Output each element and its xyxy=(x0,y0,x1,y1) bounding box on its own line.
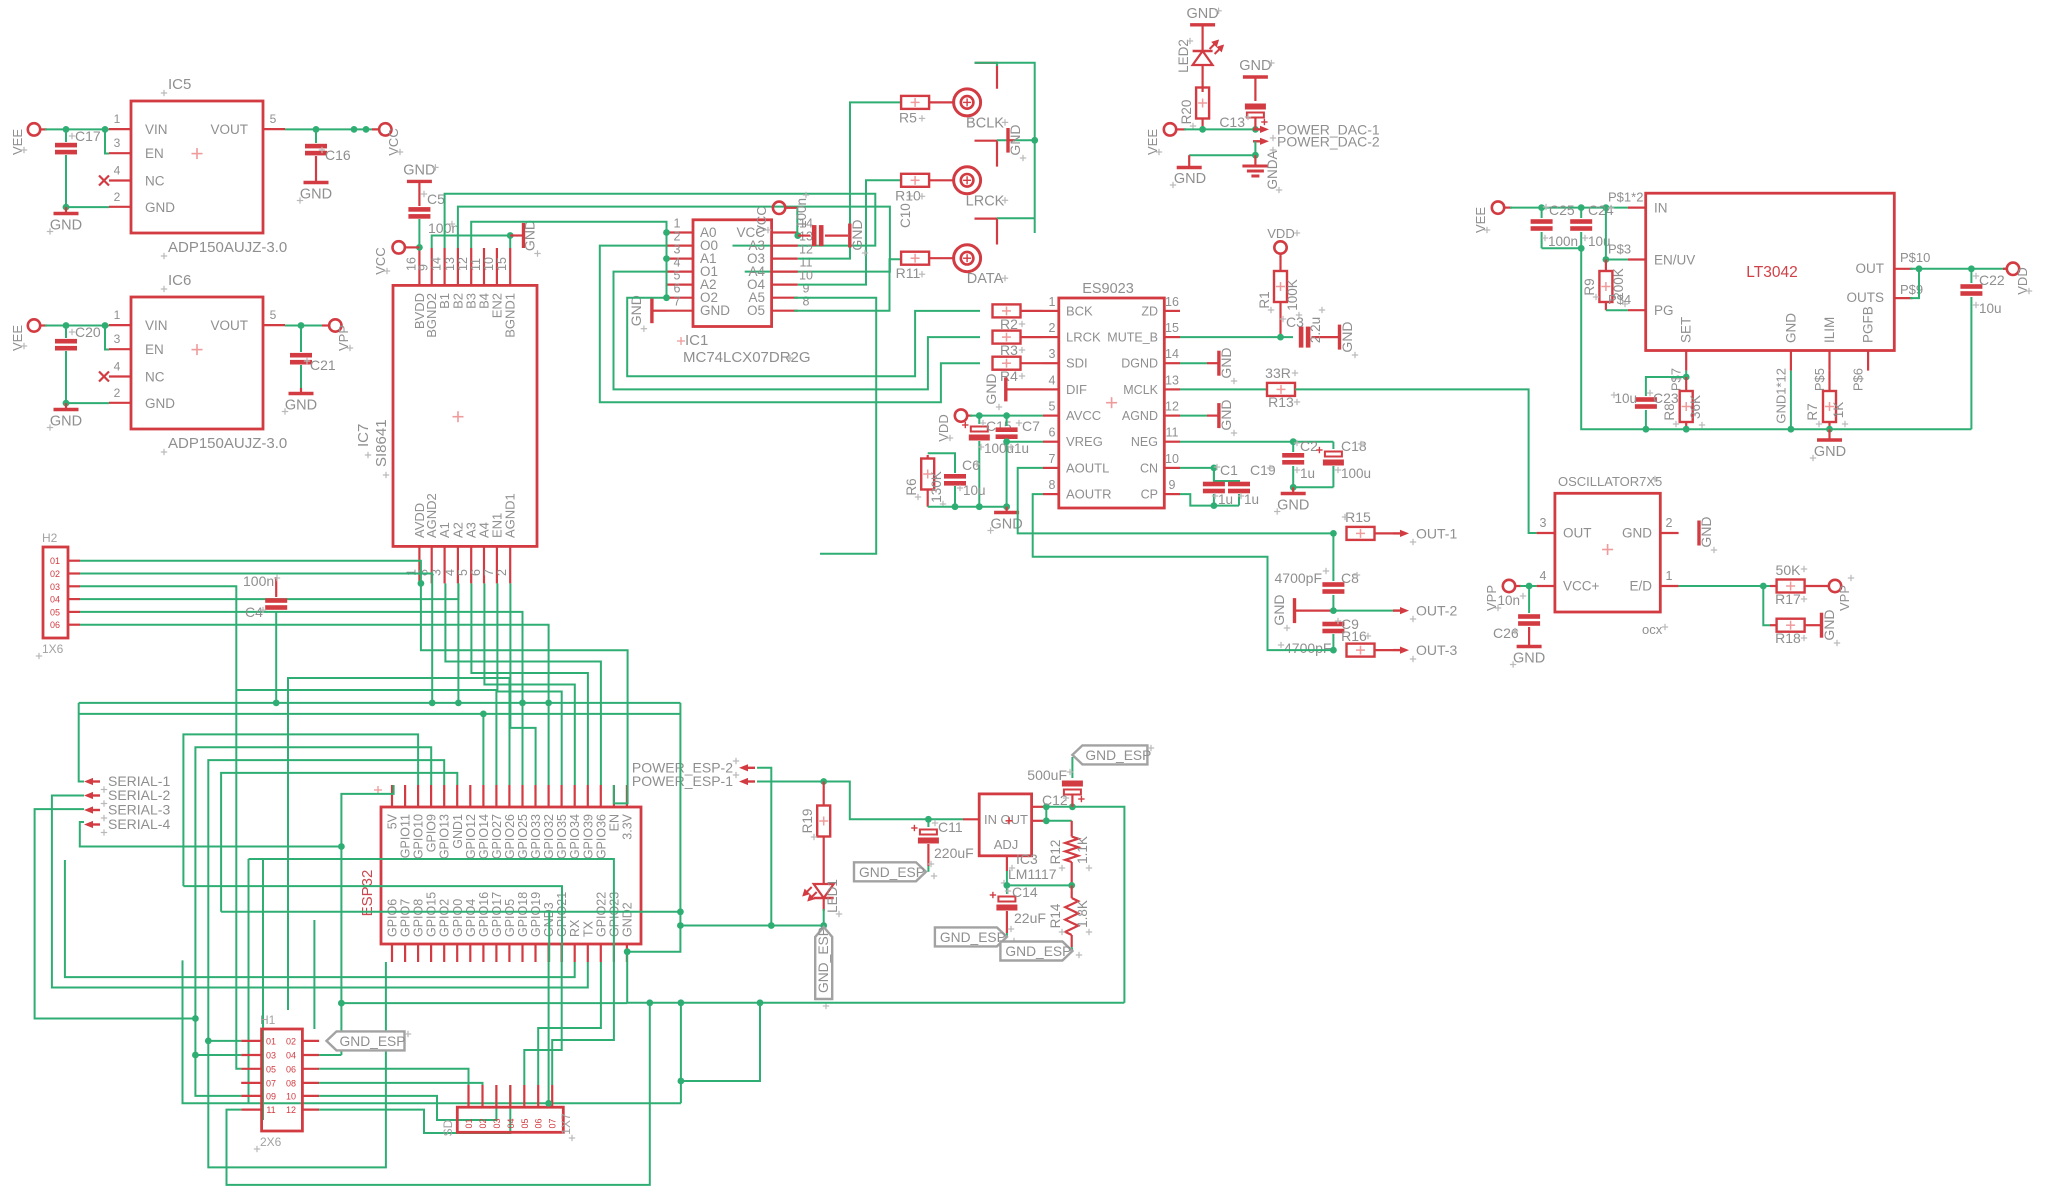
svg-text:C4: C4 xyxy=(245,604,263,620)
wire IC7 pin2 to ESP32 xyxy=(510,583,535,785)
svg-text:LED1: LED1 xyxy=(825,879,840,913)
wire H1-06 ladder xyxy=(319,1069,468,1085)
wire filler right xyxy=(681,1003,760,1081)
svg-text:12: 12 xyxy=(1165,400,1179,414)
svg-text:LRCK: LRCK xyxy=(1066,330,1101,345)
wire C20 gnd to pin2 xyxy=(66,402,109,404)
junction IC1 pin3 xyxy=(663,255,670,262)
svg-text:C18: C18 xyxy=(1341,438,1367,454)
junction OUTS tap xyxy=(1916,265,1923,272)
svg-text:P$4: P$4 xyxy=(1608,292,1631,307)
svg-text:GPIO26: GPIO26 xyxy=(503,814,517,859)
junction EN tap IC5 xyxy=(102,126,109,133)
pad VDD (3.3VA out) xyxy=(2003,263,2032,295)
resistor R16 xyxy=(1341,628,1393,657)
svg-text:1u: 1u xyxy=(1300,466,1315,481)
svg-text:7: 7 xyxy=(674,295,681,309)
svg-text:AGND: AGND xyxy=(1122,409,1158,423)
svg-text:CN: CN xyxy=(1140,461,1158,475)
wire CN net xyxy=(1180,467,1214,469)
junction C12 bottom xyxy=(1069,803,1076,810)
svg-text:C13: C13 xyxy=(1219,114,1245,130)
svg-text:4700pF: 4700pF xyxy=(1275,570,1322,586)
ground GND at OUT-2 xyxy=(1271,594,1333,631)
svg-text:220uF: 220uF xyxy=(934,845,974,861)
svg-text:GPIO36: GPIO36 xyxy=(594,814,608,859)
wire OUT stub tie xyxy=(1045,807,1047,821)
svg-text:VCC+: VCC+ xyxy=(1563,579,1600,594)
wire MCLK to oscillator xyxy=(1295,389,1537,533)
resistor R15 xyxy=(1342,509,1393,540)
svg-text:01: 01 xyxy=(464,1118,474,1128)
ground GND below C26 xyxy=(1510,647,1545,668)
svg-text:1.8K: 1.8K xyxy=(1075,900,1090,928)
capacitor C16 xyxy=(305,129,351,181)
svg-text:2: 2 xyxy=(674,230,681,244)
svg-text:VDD: VDD xyxy=(1267,226,1294,241)
svg-text:E/D: E/D xyxy=(1629,579,1652,594)
svg-text:EN: EN xyxy=(145,146,164,161)
junction bottom line xyxy=(646,999,653,1006)
ground GND under C17 xyxy=(47,207,82,235)
pad VPP (osc supply) xyxy=(1484,580,1521,611)
connector H1 2X6 xyxy=(241,1013,319,1152)
wire H2-03 trunk xyxy=(80,586,241,1069)
wire SD-05 riser xyxy=(524,962,561,1085)
svg-text:VEE: VEE xyxy=(10,325,25,351)
svg-text:10u: 10u xyxy=(1979,301,2002,316)
svg-text:R7: R7 xyxy=(1805,403,1820,420)
svg-text:R9: R9 xyxy=(1582,278,1597,295)
svg-text:GPIO2: GPIO2 xyxy=(438,899,452,937)
svg-text:1: 1 xyxy=(1666,569,1673,583)
svg-text:GPIO9: GPIO9 xyxy=(425,814,439,852)
svg-text:GPIO19: GPIO19 xyxy=(529,892,543,937)
svg-text:GND: GND xyxy=(522,220,538,251)
resistor R19 xyxy=(800,782,830,885)
svg-text:NC: NC xyxy=(145,174,165,189)
node SERIAL-4 xyxy=(84,816,170,836)
svg-text:R1: R1 xyxy=(1257,291,1272,308)
svg-text:02: 02 xyxy=(286,1036,296,1046)
wire EN IC6 xyxy=(105,326,109,350)
wire POWER_ESP-1 net xyxy=(757,782,963,820)
svg-text:GPIO10: GPIO10 xyxy=(412,814,426,859)
wire LED1 to gnd row xyxy=(823,909,825,926)
ground GND below C2 xyxy=(1274,487,1309,514)
svg-text:C25: C25 xyxy=(1549,202,1575,218)
resistor R17 50K xyxy=(1763,562,1828,607)
wire net B2 to IC1 A4 xyxy=(458,207,890,272)
svg-text:VEE: VEE xyxy=(1145,129,1160,155)
svg-text:4: 4 xyxy=(114,164,121,178)
wire v248 drop xyxy=(248,859,250,1103)
ground GND at AGND xyxy=(1180,399,1237,436)
svg-text:LED2: LED2 xyxy=(1176,39,1191,73)
wire POWER_ESP-2 drop xyxy=(757,768,771,926)
wire IC7 pin3 to ESP32 xyxy=(445,583,601,785)
svg-text:H1: H1 xyxy=(260,1013,276,1027)
junction CN tap xyxy=(1211,465,1218,472)
svg-text:GPIO25: GPIO25 xyxy=(516,814,530,859)
svg-text:MUTE_B: MUTE_B xyxy=(1107,331,1158,345)
DAC U-ES9023 xyxy=(1043,281,1180,508)
svg-text:3: 3 xyxy=(1049,347,1056,361)
capacitor C22 xyxy=(1960,269,2004,429)
wire OUTS xyxy=(1910,269,1919,298)
junction IC1 pin6 area xyxy=(663,294,670,301)
svg-text:10: 10 xyxy=(799,269,813,283)
svg-text:8: 8 xyxy=(1049,478,1056,492)
svg-text:R14: R14 xyxy=(1048,903,1063,928)
svg-text:ZD: ZD xyxy=(1141,304,1158,318)
wire EN IC5 xyxy=(105,129,109,153)
svg-text:9: 9 xyxy=(417,264,431,271)
wire H1-10 ladder xyxy=(319,1085,496,1120)
svg-text:03: 03 xyxy=(266,1051,276,1061)
junction bus1 c xyxy=(519,700,526,707)
junction H1-01 tap xyxy=(205,1038,212,1045)
svg-text:R6: R6 xyxy=(904,478,919,495)
wire GND2 to OUT rail xyxy=(627,952,1124,1003)
pad VCC (IC7 supply) xyxy=(373,241,412,275)
resistor R4 xyxy=(993,357,1044,384)
svg-text:10u: 10u xyxy=(1614,391,1637,406)
svg-text:100u: 100u xyxy=(1341,466,1371,481)
capacitor C11 xyxy=(911,819,974,867)
svg-text:7: 7 xyxy=(482,569,496,576)
svg-text:1: 1 xyxy=(114,112,121,126)
wire IC7 pin1 to ESP32 xyxy=(421,583,628,803)
node POWER_ESP-2 xyxy=(632,758,755,776)
pad VEE (DAC power) xyxy=(1145,123,1186,155)
svg-text:2: 2 xyxy=(114,190,121,204)
svg-text:C19: C19 xyxy=(1250,462,1276,478)
svg-text:05: 05 xyxy=(520,1118,530,1128)
svg-text:SET: SET xyxy=(1679,317,1694,343)
svg-text:GPIO39: GPIO39 xyxy=(581,814,595,859)
ground GND right of C3 xyxy=(1339,321,1358,358)
wire IC7 pin7 to ESP32 xyxy=(497,583,561,785)
svg-text:C11: C11 xyxy=(938,819,963,835)
svg-text:R12: R12 xyxy=(1048,840,1063,865)
svg-text:R19: R19 xyxy=(800,809,815,834)
svg-text:AOUTL: AOUTL xyxy=(1066,460,1109,475)
wire BGND bus to GND xyxy=(432,236,511,249)
svg-text:13: 13 xyxy=(1165,373,1179,387)
svg-text:GPIO8: GPIO8 xyxy=(412,899,426,937)
svg-text:VOUT: VOUT xyxy=(210,122,248,137)
svg-text:GPIO15: GPIO15 xyxy=(425,892,439,937)
svg-text:OUT: OUT xyxy=(1563,526,1592,541)
svg-text:P$6: P$6 xyxy=(1851,368,1866,391)
svg-text:1K: 1K xyxy=(1831,402,1846,419)
junction VREG/C7 xyxy=(1003,438,1010,445)
value 100u label xyxy=(978,441,1014,456)
svg-text:P$3: P$3 xyxy=(1608,242,1631,257)
wire GPIO27 route xyxy=(236,690,496,785)
svg-text:IC3: IC3 xyxy=(1016,851,1038,867)
junction serial4 xyxy=(338,843,345,850)
svg-text:VREG: VREG xyxy=(1066,434,1103,449)
wire SERIAL-2 to TX xyxy=(52,796,588,988)
ground GND at DGND xyxy=(1180,347,1237,384)
junction C20 bottom / GND net xyxy=(63,400,70,407)
svg-text:OSCILLATOR7X5: OSCILLATOR7X5 xyxy=(1558,474,1662,489)
svg-text:GND: GND xyxy=(628,295,644,326)
wire H1-03 tap xyxy=(195,1054,241,1056)
ground GND BNC shields xyxy=(1007,124,1026,161)
svg-text:1u: 1u xyxy=(1244,492,1259,507)
wire net B3 to IC1 A0 xyxy=(471,222,674,248)
svg-text:GND: GND xyxy=(50,218,82,234)
junction C24 top xyxy=(1578,204,1585,211)
junction GND3 xyxy=(545,1100,552,1107)
svg-text:3: 3 xyxy=(114,332,121,346)
pad VDD (AVCC) xyxy=(936,409,972,441)
wire C19 top link xyxy=(1214,468,1239,484)
svg-text:IN: IN xyxy=(1654,201,1668,216)
wire IC1 input overlay xyxy=(666,233,668,298)
svg-text:6: 6 xyxy=(1049,426,1056,440)
wire RX feeder xyxy=(65,860,575,977)
wire VEE to IN xyxy=(1510,207,1628,209)
svg-text:C12: C12 xyxy=(1042,792,1068,808)
svg-text:100n: 100n xyxy=(1548,234,1578,249)
capacitor C1 xyxy=(1203,462,1238,507)
svg-text:BCLK: BCLK xyxy=(966,115,1004,131)
module ESP32 xyxy=(359,785,641,962)
wire H1-04 tap xyxy=(319,1054,341,1056)
svg-text:05: 05 xyxy=(266,1064,276,1074)
wire box-cross h911 xyxy=(221,911,680,913)
svg-text:P$10: P$10 xyxy=(1900,250,1930,265)
svg-text:VOUT: VOUT xyxy=(210,318,248,333)
ground GND at osc pin2 xyxy=(1698,516,1717,553)
junction serial3 tap xyxy=(192,1015,199,1022)
buffer IC1 MC74LCX07DR2G xyxy=(667,217,813,367)
svg-text:OUT: OUT xyxy=(1856,261,1885,276)
junction C2 top xyxy=(1290,438,1297,445)
svg-text:GND_ESP: GND_ESP xyxy=(340,1034,406,1049)
junction R1/C3 xyxy=(1277,334,1284,341)
svg-text:50K: 50K xyxy=(1776,562,1802,578)
capacitor C13 xyxy=(1219,104,1267,131)
resistor R9 xyxy=(1582,260,1628,311)
svg-text:BCK: BCK xyxy=(1066,303,1093,318)
wire GPIO13 route C xyxy=(208,760,444,1167)
svg-text:GND: GND xyxy=(1271,594,1287,625)
wire filler v314 xyxy=(313,920,315,1029)
wire GPIO9 route B xyxy=(195,747,431,1096)
wire H1-08 ladder xyxy=(319,1083,482,1085)
wire SD-06 riser xyxy=(538,962,601,1085)
regulator U-LT3042 xyxy=(1608,190,1930,424)
wire net LRCKB (O4 to R10) xyxy=(798,180,902,284)
junction gnd row a xyxy=(768,922,775,929)
svg-text:EN/UV: EN/UV xyxy=(1654,253,1695,268)
svg-text:GPIO32: GPIO32 xyxy=(542,814,556,859)
junction rail x680 xyxy=(678,999,685,1006)
junction C17 top xyxy=(63,126,70,133)
svg-text:2X6: 2X6 xyxy=(260,1135,282,1149)
wire SD-07 riser xyxy=(552,962,614,1085)
junction bus1 b xyxy=(455,700,462,707)
junction C7 top xyxy=(1003,412,1010,419)
junction GND2 tap xyxy=(624,948,631,955)
svg-text:GPIO12: GPIO12 xyxy=(464,814,478,859)
junction OUT a xyxy=(1043,803,1050,810)
wire SERIAL-3 loop xyxy=(35,809,196,1018)
junction H2-01/IC7 xyxy=(418,580,425,587)
pad VEE (LT3042 in) xyxy=(1473,201,1512,233)
svg-text:R13: R13 xyxy=(1268,394,1294,410)
svg-text:5V: 5V xyxy=(386,813,400,829)
wire OUT to R12 xyxy=(1046,820,1071,822)
junction C2 bottom xyxy=(1290,484,1297,491)
flag GND_ESP at R14 xyxy=(1000,942,1082,961)
svg-text:100n: 100n xyxy=(428,220,459,236)
svg-text:GND: GND xyxy=(50,414,82,430)
wire R18 branch xyxy=(1763,586,1776,625)
svg-text:500uF: 500uF xyxy=(1027,767,1067,783)
capacitor C19 xyxy=(1228,462,1276,507)
svg-text:11: 11 xyxy=(469,258,483,271)
wire GND1 drop xyxy=(1790,371,1792,430)
wire AOUTR to OUT-3 xyxy=(1033,494,1334,650)
svg-text:03: 03 xyxy=(492,1118,502,1128)
junction gnd row b xyxy=(820,922,827,929)
wire SERIAL-4 to 5V xyxy=(80,822,342,847)
junction BGND1 riser xyxy=(507,232,514,239)
svg-text:5: 5 xyxy=(1049,400,1056,414)
svg-text:GND_ESP: GND_ESP xyxy=(940,930,1006,945)
svg-text:5: 5 xyxy=(270,112,277,126)
junction rail C23 xyxy=(1643,426,1650,433)
svg-text:GND: GND xyxy=(1277,498,1309,514)
svg-text:R5: R5 xyxy=(899,109,917,125)
junction SET xyxy=(1683,374,1690,381)
wire v680 lower xyxy=(680,1003,682,1104)
wire IC7 pin4 drop xyxy=(457,583,459,703)
pad VCC (IC5 output) xyxy=(372,123,403,156)
resistor R11 xyxy=(896,252,953,282)
wire H1-01 tap xyxy=(208,1040,241,1042)
junction H1-03 tap xyxy=(192,1052,199,1059)
svg-text:06: 06 xyxy=(534,1118,544,1128)
svg-text:04: 04 xyxy=(286,1051,296,1061)
junction R12 bottom xyxy=(1068,882,1075,889)
svg-text:TX: TX xyxy=(581,920,595,937)
svg-text:CP: CP xyxy=(1141,488,1158,502)
wire gnd row LED xyxy=(680,925,823,927)
svg-text:GPIO34: GPIO34 xyxy=(568,814,582,859)
resistor R10 xyxy=(895,174,953,204)
pad VEE (IC5 input) xyxy=(10,123,47,155)
svg-text:GNDA: GNDA xyxy=(1265,150,1280,189)
svg-text:15: 15 xyxy=(495,257,509,271)
svg-text:C2: C2 xyxy=(1300,438,1318,454)
svg-text:GPIO0: GPIO0 xyxy=(451,899,465,937)
svg-text:GPIO5: GPIO5 xyxy=(503,899,517,937)
svg-text:LT3042: LT3042 xyxy=(1746,264,1797,281)
svg-text:GND: GND xyxy=(1007,124,1023,155)
wire VDD to AVCC xyxy=(970,415,1043,417)
junction E/D tap xyxy=(1760,583,1767,590)
svg-text:GND: GND xyxy=(403,162,435,178)
wire net A5 loop down xyxy=(794,298,876,554)
wire OUT top net xyxy=(1046,807,1124,1003)
svg-text:P$5: P$5 xyxy=(1812,368,1827,391)
svg-text:VIN: VIN xyxy=(145,318,168,333)
svg-text:VPP: VPP xyxy=(1837,585,1852,611)
svg-text:GND: GND xyxy=(1239,58,1271,74)
junction gnd rail ES9023 xyxy=(1003,503,1010,510)
wire C25 to C24 bottoms xyxy=(1542,247,1582,249)
wire SET net xyxy=(1646,371,1686,396)
capacitor C3 xyxy=(1280,307,1338,348)
svg-text:6: 6 xyxy=(469,569,483,576)
svg-text:H2: H2 xyxy=(42,531,58,545)
wire MUTE_B net xyxy=(1180,336,1293,338)
wire left gnd rail LT3042 xyxy=(1581,248,1646,429)
svg-text:12: 12 xyxy=(286,1105,296,1115)
svg-text:GND: GND xyxy=(145,200,175,215)
svg-text:DATA: DATA xyxy=(967,271,1004,287)
svg-text:4: 4 xyxy=(443,569,457,576)
svg-text:4: 4 xyxy=(1540,569,1547,583)
svg-text:RX: RX xyxy=(568,919,582,937)
voltage regulator IC5 xyxy=(99,76,287,259)
resistor R1 xyxy=(1257,256,1302,337)
capacitor C12 500uF xyxy=(1027,757,1084,808)
svg-text:GPIO14: GPIO14 xyxy=(477,814,491,859)
wire C2 C18 bottoms xyxy=(1293,486,1333,488)
junction C25 top xyxy=(1538,204,1545,211)
wire H1-11 to bottom xyxy=(227,1003,650,1185)
ground GND under C20 xyxy=(47,403,82,431)
wire R9 to PG xyxy=(1606,309,1628,311)
svg-text:C1: C1 xyxy=(1220,462,1238,478)
junction v341 y1003 xyxy=(338,1000,345,1007)
junction C11 top xyxy=(925,816,932,823)
svg-text:3: 3 xyxy=(674,243,681,257)
capacitor C18 xyxy=(1316,438,1371,487)
junction bus2 end xyxy=(480,711,487,718)
svg-text:C17: C17 xyxy=(75,128,101,144)
svg-text:C21: C21 xyxy=(310,357,336,373)
svg-text:03: 03 xyxy=(50,582,60,592)
svg-text:07: 07 xyxy=(266,1078,276,1088)
resistor R2 xyxy=(993,304,1044,332)
svg-text:08: 08 xyxy=(286,1078,296,1088)
wire H1 loop lower xyxy=(183,960,681,1103)
svg-text:R10: R10 xyxy=(895,187,921,203)
wire gnd bus 1 xyxy=(79,702,681,704)
svg-text:GND: GND xyxy=(1218,347,1234,378)
node OUT-1 xyxy=(1393,526,1457,546)
wire R6 top to C6 xyxy=(928,453,955,473)
svg-text:ADJ: ADJ xyxy=(994,837,1019,852)
svg-text:GPIO11: GPIO11 xyxy=(399,814,413,858)
svg-text:5: 5 xyxy=(270,308,277,322)
node OUT-3 xyxy=(1393,642,1457,662)
ground GND right of IC7 top xyxy=(510,220,541,257)
capacitor C5 xyxy=(408,191,459,245)
BNC connector LRCK xyxy=(954,141,1009,210)
wire H2-06 trunk xyxy=(80,625,549,785)
junction C17 bottom / GND net xyxy=(63,204,70,211)
